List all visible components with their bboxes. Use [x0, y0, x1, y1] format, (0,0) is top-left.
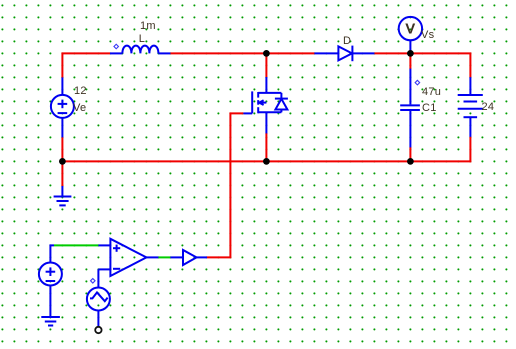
- wire MOSFET source stub: [265, 133, 267, 161]
- node ground-left junction: [59, 158, 66, 165]
- svg-text:C1: C1: [422, 102, 437, 114]
- node drain junction: [263, 50, 270, 57]
- battery 24: [458, 77, 483, 137]
- wire C1 top stub: [409, 53, 411, 69]
- svg-text:1m: 1m: [140, 20, 156, 32]
- inductor L: [110, 46, 170, 54]
- capacitor C1: [400, 69, 420, 148]
- marker C1 pin: [415, 80, 420, 85]
- svg-text:24: 24: [482, 101, 495, 113]
- wire top rail inductor to diode: [170, 52, 314, 54]
- wire battery bottom stub: [469, 137, 471, 163]
- svg-text:Ve: Ve: [73, 102, 86, 114]
- wire drain stub: [265, 53, 267, 77]
- wire ground stub below rail: [61, 161, 63, 186]
- svg-text:47u: 47u: [422, 86, 441, 98]
- node source junction: [263, 158, 270, 165]
- ground left under rail: [54, 186, 72, 205]
- wire gate drive from buffer up to gate: [207, 113, 244, 257]
- ground under dc source: [41, 317, 60, 326]
- wire top-left corner from Ve to inductor: [62, 53, 110, 78]
- open terminal of generator: [95, 327, 101, 333]
- MOSFET: [243, 77, 288, 133]
- marker generator pin: [91, 279, 96, 284]
- buffer gate driver: [170, 250, 207, 265]
- wire top rail diode to battery corner, down to battery: [374, 53, 470, 77]
- svg-text:V: V: [405, 21, 415, 38]
- node voltmeter junction: [407, 50, 414, 57]
- svg-text:L: L: [139, 33, 145, 45]
- wire Ve bottom stub: [61, 137, 63, 161]
- op-amp comparator: [98, 239, 158, 288]
- wire green op-amp output: [158, 256, 170, 258]
- voltage source Ve: [51, 77, 74, 137]
- diode D: [314, 46, 374, 62]
- voltmeter Vs: [399, 17, 422, 54]
- svg-text:D: D: [343, 35, 351, 47]
- node C1 junction: [407, 158, 414, 165]
- marker inductor pin: [114, 44, 119, 49]
- wire C1 bottom stub: [409, 147, 411, 161]
- svg-text:Vs: Vs: [421, 29, 435, 41]
- svg-text:12: 12: [74, 85, 87, 97]
- dc reference source: [39, 245, 62, 317]
- wire green op-amp noninverting input: [54, 244, 98, 246]
- triangle wave generator: [87, 288, 110, 327]
- wire bottom ground rail: [62, 160, 470, 162]
